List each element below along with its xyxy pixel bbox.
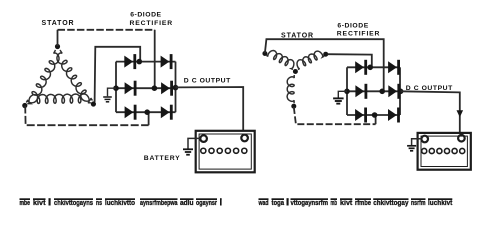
svg-text:rfmbe: rfmbe [355, 198, 371, 207]
svg-text:D C OUTPUT: D C OUTPUT [184, 78, 231, 85]
battery BATTERY (right) [418, 133, 471, 170]
node delta apex [55, 44, 60, 49]
svg-text:chkivttogayns: chkivttogayns [54, 198, 93, 207]
node row1 center (right rect) [367, 65, 373, 71]
wire phase C horizontal (BL along bottom) [25, 106, 148, 126]
wire battery left terminal to ground (right) [412, 139, 422, 145]
diode D4 [161, 82, 170, 94]
node row2 center (left rect) [152, 85, 158, 91]
node delta bottom-left [22, 103, 27, 108]
stator winding bottom (star) [287, 75, 294, 103]
node star bottom terminal [291, 104, 296, 109]
diode D7 [355, 61, 364, 73]
wire to rectifier ground (left) [108, 88, 117, 96]
wire phase C2 horizontal (star bottom along bottom) [294, 107, 376, 124]
svg-text:luchkivt: luchkivt [428, 198, 453, 207]
diode D1 [124, 56, 133, 68]
wire left rectifier row3 [116, 111, 176, 113]
svg-text:kivt: kivt [340, 198, 353, 207]
svg-text:STATOR: STATOR [281, 32, 314, 39]
svg-text:kivt: kivt [33, 198, 46, 207]
wire right rectifier row3 [347, 114, 400, 116]
diode D5 [125, 106, 134, 118]
svg-text:chkivttogay: chkivttogay [373, 198, 409, 207]
ground at left rectifier [103, 96, 112, 98]
svg-text:luchkivtto: luchkivtto [105, 198, 135, 207]
svg-text:wad: wad [258, 198, 269, 207]
node star right terminal [323, 52, 328, 57]
stator winding bottom side (delta) [27, 94, 91, 104]
node row1 center (left rect) [137, 59, 143, 65]
battery BATTERY (left) [196, 131, 255, 173]
node row3 center (right rect) [372, 112, 378, 118]
diode D11 [355, 109, 364, 121]
wire left rectifier row2 [116, 87, 176, 89]
svg-text:RECTIFIER: RECTIFIER [130, 20, 174, 27]
svg-text:toga: toga [272, 198, 285, 207]
diode D8 [388, 61, 397, 73]
diode D9 [355, 85, 364, 97]
wire left rectifier left rail [115, 62, 117, 113]
wire phase B2: star right terminal to row1 center [328, 54, 372, 67]
wire phase A2: star left terminal to row2 center [265, 39, 384, 91]
svg-text:aynsrfmbepwa: aynsrfmbepwa [140, 198, 178, 207]
stator winding left (star) [266, 51, 294, 70]
svg-text:mb: mb [331, 198, 338, 207]
svg-text:6-DIODE: 6-DIODE [337, 22, 368, 29]
wire phase A vertical (corner to row2 center) [154, 30, 156, 88]
svg-text:6-DIODE: 6-DIODE [130, 11, 161, 18]
diode D12 [388, 109, 397, 121]
node star center [293, 69, 298, 74]
caption right (Bengali figure caption) [258, 198, 453, 207]
wire phase A horizontal (to corner) [58, 29, 155, 31]
svg-text:STATOR: STATOR [42, 20, 75, 27]
wire left rectifier row1 [116, 61, 176, 63]
svg-text:ogaynsr: ogaynsr [196, 198, 217, 207]
wire right rectifier right rail [399, 67, 401, 115]
node row2 center (right rect) [379, 89, 385, 95]
wire to rectifier ground (right) [338, 91, 347, 97]
ground at right rectifier [333, 97, 344, 99]
ground at right battery [407, 145, 416, 147]
ground at left battery [183, 148, 193, 150]
wire phase B: delta BR to row1 center [95, 47, 141, 102]
wire phase A riser (apex up) [57, 30, 59, 46]
diode D6 [161, 106, 170, 118]
svg-text:RECTIFIER: RECTIFIER [337, 30, 381, 37]
node row2 left rail (right rect) [344, 89, 350, 95]
node delta bottom-right [91, 101, 96, 106]
wire left rectifier right rail [175, 62, 177, 113]
wire right rectifier left rail [346, 67, 348, 115]
arrow on DC output wire (right) [457, 110, 464, 117]
svg-text:vttogaynsrfm: vttogaynsrfm [291, 198, 329, 207]
stator winding left side (delta) [26, 50, 59, 103]
svg-text:adlu: adlu [180, 198, 194, 207]
node row2 left rail (left rect) [113, 85, 119, 91]
wire right rectifier row2 [347, 90, 400, 92]
wire phase C vertical (to row3 center) [148, 112, 150, 125]
svg-text:ns: ns [96, 198, 102, 207]
wire DC output to battery (left) [176, 87, 244, 132]
node row3 center (left rect) [144, 109, 150, 115]
svg-text:nsrfm: nsrfm [411, 198, 426, 207]
caption left (Bengali figure caption) [20, 198, 222, 207]
wire phase C2 vertical (to row3 center) [375, 115, 377, 124]
node star left terminal [262, 51, 267, 56]
stator winding right side (delta) [57, 50, 93, 101]
diode D2 [161, 56, 170, 68]
diode D10 [388, 85, 397, 97]
node row2 right rail (left rect) [173, 85, 179, 91]
svg-text:BATTERY: BATTERY [144, 155, 181, 162]
svg-text:mbe: mbe [20, 198, 31, 207]
wire right rectifier row1 [347, 66, 400, 68]
diode D3 [125, 82, 134, 94]
node row2 right rail (right rect) [398, 89, 404, 95]
wire battery left terminal to ground (left) [188, 138, 200, 148]
stator winding right (star) [297, 51, 324, 69]
wire DC output to battery (right) [401, 91, 460, 133]
